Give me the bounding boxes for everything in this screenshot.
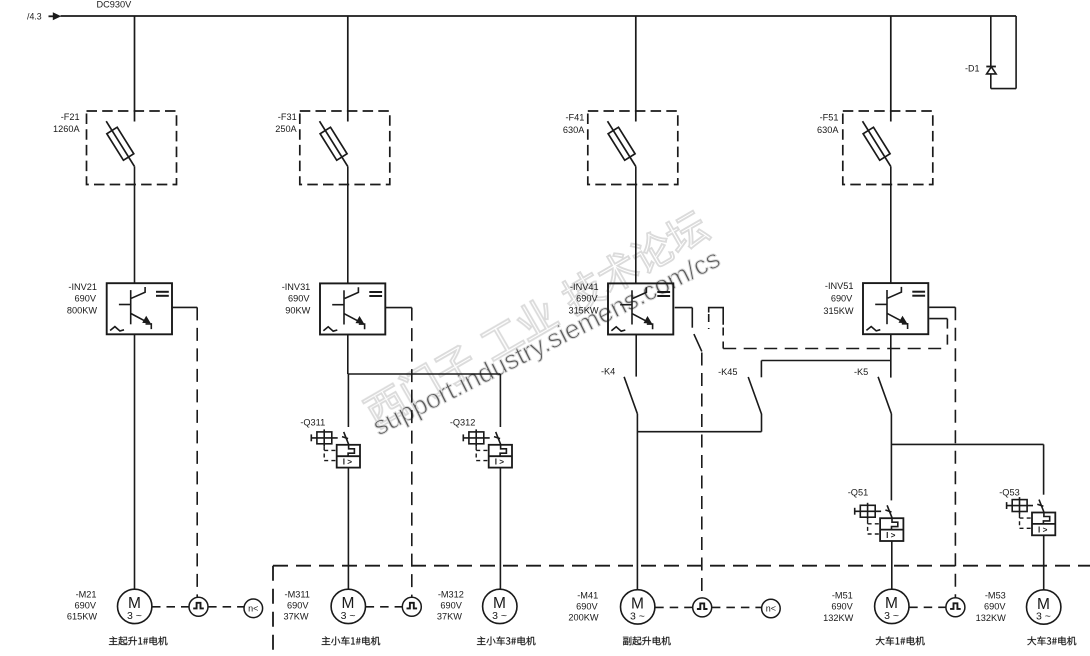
svg-text:-INV51: -INV51 bbox=[825, 281, 854, 291]
svg-text:132KW: 132KW bbox=[976, 613, 1006, 623]
svg-text:690V: 690V bbox=[75, 294, 97, 304]
svg-text:690V: 690V bbox=[287, 600, 309, 610]
svg-text:690V: 690V bbox=[831, 294, 853, 304]
svg-text:-M41: -M41 bbox=[577, 590, 598, 600]
svg-text:-Q53: -Q53 bbox=[999, 487, 1019, 497]
svg-text:-K4: -K4 bbox=[601, 367, 615, 377]
svg-text:support.industry.siemens.com/c: support.industry.siemens.com/cs bbox=[368, 243, 725, 441]
svg-text:37KW: 37KW bbox=[437, 612, 462, 622]
svg-text:90KW: 90KW bbox=[285, 305, 310, 315]
svg-text:615KW: 615KW bbox=[67, 612, 97, 622]
svg-text:-F21: -F21 bbox=[61, 112, 80, 122]
svg-text:-Q312: -Q312 bbox=[450, 417, 476, 427]
svg-text:690V: 690V bbox=[288, 294, 310, 304]
svg-text:-F41: -F41 bbox=[565, 112, 584, 122]
svg-text:690V: 690V bbox=[576, 294, 598, 304]
svg-text:-Q311: -Q311 bbox=[300, 417, 325, 427]
svg-text:315KW: 315KW bbox=[823, 306, 853, 316]
svg-text:-K5: -K5 bbox=[854, 367, 868, 377]
svg-text:800KW: 800KW bbox=[67, 305, 97, 315]
svg-text:-Q51: -Q51 bbox=[848, 487, 868, 497]
svg-text:-M53: -M53 bbox=[985, 590, 1006, 600]
svg-text:690V: 690V bbox=[831, 601, 853, 611]
svg-text:250A: 250A bbox=[275, 124, 297, 134]
svg-text:-F51: -F51 bbox=[820, 112, 839, 122]
svg-text:1260A: 1260A bbox=[53, 124, 80, 134]
svg-text:315KW: 315KW bbox=[568, 305, 598, 315]
svg-text:200KW: 200KW bbox=[568, 613, 598, 623]
svg-text:690V: 690V bbox=[440, 600, 462, 610]
svg-text:690V: 690V bbox=[984, 601, 1006, 611]
svg-text:630A: 630A bbox=[563, 125, 585, 135]
svg-text:132KW: 132KW bbox=[823, 613, 853, 623]
svg-text:690V: 690V bbox=[75, 600, 97, 610]
svg-text:-K45: -K45 bbox=[718, 367, 737, 377]
svg-text:-M312: -M312 bbox=[438, 590, 464, 600]
svg-text:-M311: -M311 bbox=[285, 590, 310, 600]
svg-text:-M51: -M51 bbox=[832, 590, 853, 600]
svg-text:-INV31: -INV31 bbox=[282, 282, 311, 292]
svg-text:690V: 690V bbox=[576, 601, 598, 611]
svg-text:/4.3: /4.3 bbox=[27, 12, 42, 22]
svg-text:DC930V: DC930V bbox=[97, 0, 133, 10]
svg-text:-INV21: -INV21 bbox=[68, 282, 97, 292]
svg-text:630A: 630A bbox=[817, 125, 839, 135]
svg-text:-D1: -D1 bbox=[965, 63, 980, 73]
svg-text:-F31: -F31 bbox=[278, 112, 297, 122]
svg-text:-M21: -M21 bbox=[76, 590, 97, 600]
svg-text:-INV41: -INV41 bbox=[570, 282, 599, 292]
svg-text:37KW: 37KW bbox=[283, 612, 308, 622]
